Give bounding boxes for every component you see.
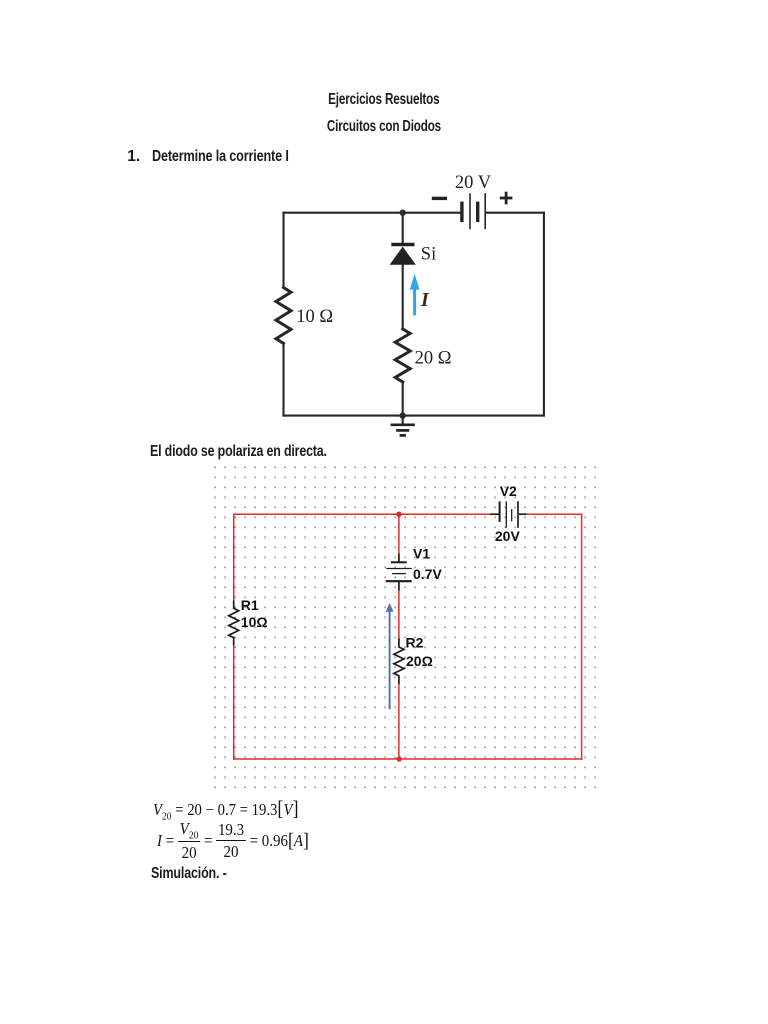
wire: top, battery to right corner: [486, 212, 544, 214]
Simulacion: [151, 865, 227, 883]
current arrow I (cyan): [410, 274, 420, 316]
wire: top right of V2 (red): [527, 513, 582, 515]
wire: middle top (node to diode): [402, 213, 404, 244]
document title line 2: [0, 118, 768, 136]
wire: middle above V1 (red): [398, 514, 400, 553]
paragraph: el diodo: [150, 443, 327, 461]
battery plus sign: [500, 192, 513, 205]
equation V20 = 20 - 0.7 = 19.3[V]: [153, 796, 299, 822]
wire: left below R1 (red): [233, 645, 235, 759]
wire: top left (red): [234, 513, 491, 515]
wire: left above R1 (red): [233, 514, 235, 600]
svg-text:0.7V: 0.7V: [413, 566, 442, 582]
wire: middle (diode to resistor): [402, 265, 404, 330]
diode D (Si) cathode bar: [391, 243, 414, 246]
wire: bottom (red): [234, 758, 582, 760]
wire: right side (red): [581, 514, 583, 759]
svg-text:10Ω: 10Ω: [241, 614, 268, 630]
battery E (20 V) plates: [462, 194, 485, 228]
ground symbol: [391, 416, 415, 436]
wire: top, left segment to battery: [284, 212, 461, 214]
wire: right side: [543, 213, 545, 416]
battery V1: [386, 554, 412, 591]
wire: middle below R2 (red): [398, 684, 400, 759]
junction node bottom (red): [397, 756, 402, 761]
svg-text:20V: 20V: [495, 528, 521, 544]
wire: bottom: [284, 415, 544, 417]
wire: left lower: [282, 343, 284, 415]
numbered item 1: [127, 148, 140, 166]
junction node bottom: [400, 412, 406, 418]
resistor 10 ohm zigzag: [276, 288, 291, 344]
svg-text:V1: V1: [413, 546, 430, 562]
diode D (Si) triangle: [390, 247, 416, 265]
document title line 1: [0, 91, 768, 109]
wire: left upper: [282, 213, 284, 288]
current arrow (blue): [386, 603, 394, 709]
svg-text:R2: R2: [406, 635, 424, 651]
svg-text:20Ω: 20Ω: [406, 653, 433, 669]
battery minus sign: [432, 197, 447, 200]
wire: middle V1 to R2 (red): [398, 590, 400, 638]
battery V2: [490, 501, 526, 528]
svg-text:V2: V2: [500, 483, 517, 499]
junction node top (red): [396, 512, 401, 517]
resistor 20 ohm zigzag: [395, 329, 410, 382]
wire: middle bottom: [402, 382, 404, 416]
resistor R2: [394, 638, 404, 684]
equation I = V20/20 = 19.3/20 = 0.96[A]: [157, 823, 309, 859]
resistor R1: [229, 601, 239, 646]
svg-text:R1: R1: [241, 597, 259, 613]
junction node top: [400, 210, 406, 216]
